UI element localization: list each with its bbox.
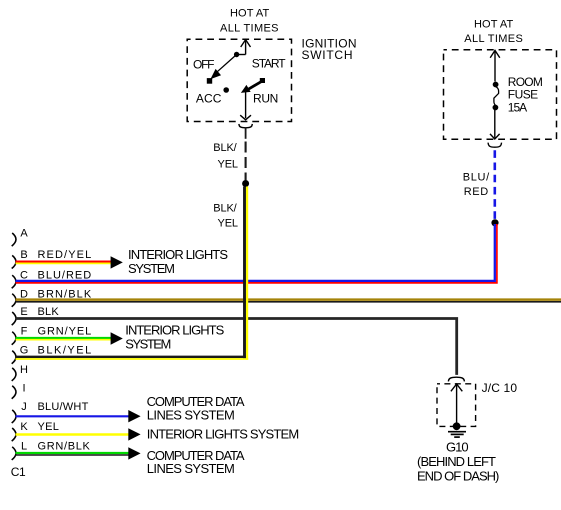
svg-text:BLU/: BLU/ — [463, 172, 490, 184]
fuse F1 ROOM FUSE 15A element — [493, 82, 499, 88]
wire BLK/YEL solid stub below connector — [245, 128, 247, 139]
wire C BLU/RED horizontal + vertical to fuse — [16, 224, 495, 281]
node HOT AT ALL TIMES (right feed label) — [464, 19, 523, 46]
svg-text:YEL: YEL — [218, 218, 239, 230]
pin E connector arc — [12, 312, 16, 325]
pin D connector arc — [12, 294, 16, 307]
svg-text:HOT AT: HOT AT — [230, 7, 269, 19]
connector cup above J/C 10 (inverted) — [448, 377, 464, 381]
svg-text:ALL TIMES: ALL TIMES — [464, 33, 523, 45]
pin F connector arc — [12, 332, 16, 345]
svg-text:INTERIOR LIGHTS SYSTEM: INTERIOR LIGHTS SYSTEM — [147, 427, 299, 442]
svg-text:(BEHIND LEFT: (BEHIND LEFT — [417, 454, 496, 469]
node HOT AT ALL TIMES (left feed label) — [220, 7, 279, 34]
svg-text:SYSTEM: SYSTEM — [125, 337, 171, 352]
wire F GRN/YEL — [16, 337, 112, 339]
svg-text:GRN/BLK: GRN/BLK — [38, 441, 91, 453]
svg-text:C1: C1 — [11, 465, 26, 479]
pin L connector arc — [12, 447, 16, 460]
arrow to system (F) — [111, 332, 123, 344]
svg-text:INTERIOR LIGHTS: INTERIOR LIGHTS — [128, 247, 228, 262]
arrow to system (L) — [128, 447, 140, 459]
svg-text:LINES SYSTEM: LINES SYSTEM — [147, 461, 235, 476]
ACC contact dot — [223, 87, 229, 93]
svg-text:HOT AT: HOT AT — [474, 19, 513, 31]
wire K YEL — [16, 433, 130, 436]
OFF contact square — [207, 78, 212, 84]
svg-text:G: G — [20, 345, 29, 357]
svg-text:START: START — [252, 57, 286, 71]
label BLK/YEL (lower) — [213, 203, 238, 230]
switch wiper arm toward OFF with arrowhead — [215, 55, 237, 75]
label BLU/RED — [463, 172, 490, 199]
ground symbol G10 — [448, 432, 466, 437]
switch common pivot dot — [234, 52, 239, 57]
ignition switch label — [302, 37, 357, 62]
svg-text:A: A — [20, 228, 28, 240]
ground node dot G10 — [453, 422, 461, 430]
svg-text:SYSTEM: SYSTEM — [128, 261, 175, 276]
pin J connector arc — [12, 410, 16, 423]
arrow to system (B) — [111, 256, 123, 268]
pin K connector arc — [12, 428, 16, 441]
junction connector J/C 10 dashed enclosure — [437, 384, 476, 427]
wire BLU/RED dashed vertical from fuse — [493, 150, 496, 219]
svg-text:COMPUTER DATA: COMPUTER DATA — [147, 394, 245, 409]
room fuse dashed enclosure — [444, 50, 557, 140]
pin I connector arc — [12, 386, 16, 399]
system label (J) COMPUTER DATA LINES SYSTEM — [147, 394, 245, 423]
svg-text:GRN/YEL: GRN/YEL — [38, 325, 92, 337]
pin A connector arc — [12, 233, 16, 246]
arrow inside J/C 10 (up) — [451, 384, 462, 426]
svg-text:BLU/RED: BLU/RED — [38, 270, 92, 282]
junction node on BLK/YEL — [242, 180, 249, 187]
svg-text:B: B — [20, 249, 27, 261]
wire L GRN/BLK — [16, 452, 130, 454]
svg-text:J/C 10: J/C 10 — [482, 381, 518, 395]
pin H connector arc — [12, 368, 16, 381]
svg-text:K: K — [20, 421, 28, 433]
svg-text:BLK/: BLK/ — [213, 203, 237, 215]
fuse output arrow (down) — [490, 108, 500, 139]
svg-text:ACC: ACC — [196, 92, 222, 106]
svg-text:H: H — [20, 364, 28, 376]
svg-text:BLU/WHT: BLU/WHT — [38, 401, 89, 413]
svg-text:I: I — [22, 382, 25, 394]
wire J BLU/WHT — [16, 415, 130, 417]
svg-text:RED: RED — [464, 186, 489, 198]
svg-text:C: C — [20, 270, 28, 282]
svg-text:15A: 15A — [508, 100, 527, 114]
ignition switch feed arrow (up, to HOT AT ALL TIMES) — [237, 40, 251, 55]
connector cup under ignition switch — [239, 124, 252, 128]
arrow to system (K) — [128, 428, 140, 440]
svg-text:YEL: YEL — [38, 421, 59, 433]
wire D BRN/BLK — [16, 298, 561, 301]
system label (B) INTERIOR LIGHTS SYSTEM — [128, 247, 228, 276]
svg-text:OFF: OFF — [193, 58, 215, 72]
svg-text:YEL: YEL — [218, 159, 239, 171]
ground location label — [417, 454, 499, 484]
svg-text:BLK/YEL: BLK/YEL — [38, 345, 92, 357]
fuse feed arrow (up) — [490, 50, 500, 81]
system label (L) COMPUTER DATA LINES SYSTEM — [147, 448, 245, 476]
svg-text:LINES SYSTEM: LINES SYSTEM — [147, 408, 235, 423]
wire G BLK/YEL horizontal + vertical up to ignition switch junction — [16, 356, 246, 359]
svg-text:ALL TIMES: ALL TIMES — [220, 22, 279, 34]
pin C connector arc — [12, 275, 16, 288]
svg-text:E: E — [20, 306, 27, 318]
RUN contact bar with end squares — [247, 81, 263, 90]
svg-text:RUN: RUN — [253, 92, 278, 106]
svg-text:G10: G10 — [446, 440, 469, 455]
svg-text:INTERIOR LIGHTS: INTERIOR LIGHTS — [125, 323, 224, 338]
svg-text:SWITCH: SWITCH — [302, 48, 353, 62]
svg-text:BLK/: BLK/ — [213, 142, 237, 154]
wire B RED/YEL — [16, 261, 112, 263]
switch output arrow (down) — [240, 90, 251, 120]
system label (F) INTERIOR LIGHTS SYSTEM — [125, 323, 224, 352]
svg-text:END OF DASH): END OF DASH) — [417, 469, 499, 484]
svg-text:J: J — [21, 401, 27, 413]
pin G connector arc — [12, 351, 16, 364]
wire E BLK horizontal + vertical down to J/C 10 — [16, 319, 457, 375]
svg-text:F: F — [21, 325, 28, 337]
wire BLK/YEL dashed segment — [245, 142, 247, 181]
fuse value label ROOM FUSE 15A — [508, 75, 543, 114]
pin B connector arc — [12, 255, 16, 268]
svg-text:L: L — [21, 441, 27, 453]
ignition switch S1 dashed enclosure — [187, 39, 291, 121]
connector cup under room fuse — [488, 143, 501, 148]
label BLK/YEL (upper) — [213, 142, 238, 171]
svg-text:BLK: BLK — [38, 306, 60, 318]
arrow to system (J) — [128, 410, 140, 422]
junction node on BLU/RED — [491, 219, 498, 226]
